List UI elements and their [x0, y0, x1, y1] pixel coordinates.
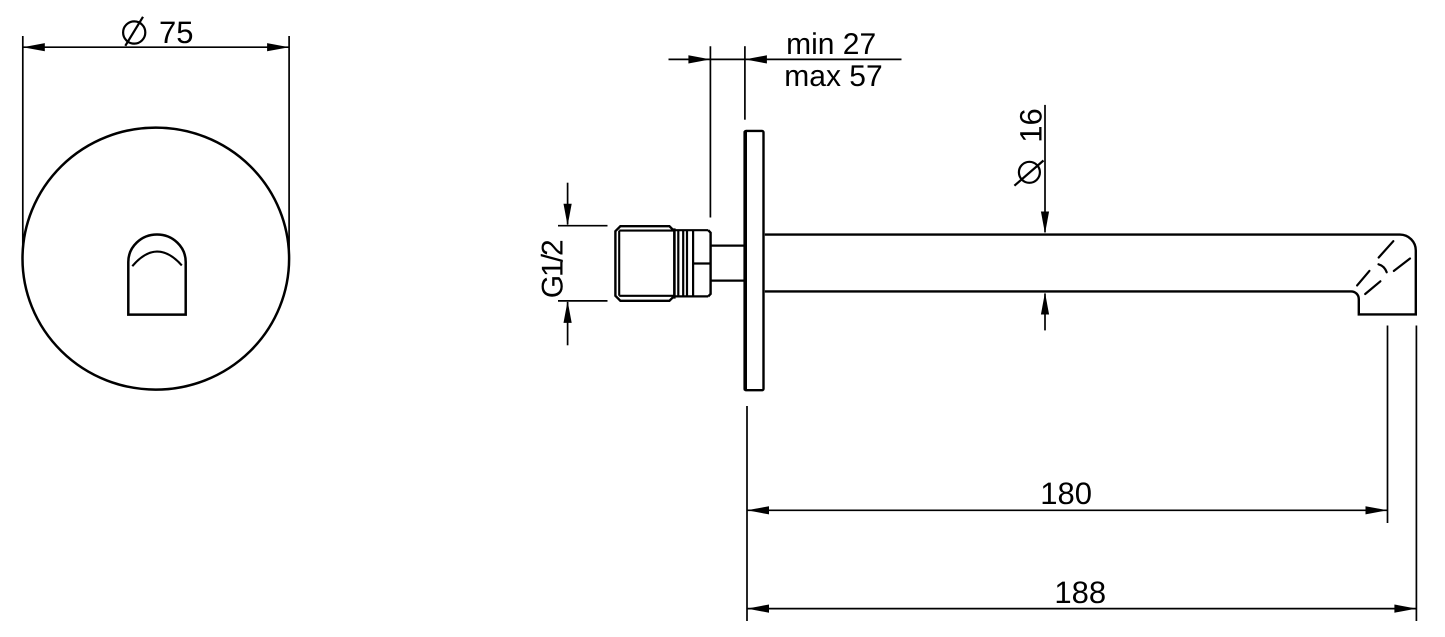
bottom extension line spout end (188) — [1415, 326, 1417, 622]
threaded connector body G1/2 (side view) — [615, 226, 674, 301]
hidden waterway dashed lines in bend — [1357, 241, 1410, 294]
diameter symbol of Ø75 — [123, 17, 145, 46]
arrowhead Ø75 left — [23, 43, 45, 51]
svg-text:75: 75 — [159, 15, 193, 50]
svg-text:G1/2: G1/2 — [536, 240, 569, 298]
G1/2 dimension line bottom with arrow — [567, 302, 569, 345]
G1/2 extension line top — [558, 225, 608, 227]
wall plate (side view flange) — [745, 131, 764, 390]
Ø16 dimension line upper with arrow — [1044, 105, 1046, 232]
spout tube outline — [765, 235, 1416, 315]
svg-text:min 27: min 27 — [786, 28, 876, 61]
wall plate thick left edge — [744, 131, 747, 390]
dimension line 188 — [747, 608, 1416, 610]
bottom extension line left (wall face) — [746, 406, 748, 621]
arrowhead pointing left at right extension — [745, 55, 767, 63]
min/max dimension line — [669, 58, 902, 60]
nut chamfers and right face — [708, 230, 710, 296]
extension line left of Ø75 — [22, 36, 24, 250]
spout inner lip arc (front view) — [132, 252, 182, 267]
extension line right of Ø75 — [288, 36, 290, 250]
diameter symbol of Ø16 — [1014, 161, 1043, 186]
G1/2 extension line bottom — [558, 300, 608, 302]
svg-text:max 57: max 57 — [784, 60, 882, 93]
G1/2 dimension line top with arrow — [567, 183, 569, 225]
svg-text:180: 180 — [1040, 476, 1092, 511]
arrowhead 188 left — [747, 605, 769, 613]
dimension line 180 — [747, 509, 1388, 511]
arrowhead 180 left — [747, 506, 769, 514]
connector right face — [673, 228, 675, 298]
arrowhead pointing right at left extension — [688, 55, 710, 63]
min/max extension line left — [709, 46, 711, 217]
escutcheon circle (front view, Ø75 wall plate) — [23, 128, 290, 390]
svg-text:16: 16 — [1013, 108, 1048, 142]
Ø16 dimension line lower with arrow — [1044, 294, 1046, 331]
locking rings / nut stack — [674, 230, 708, 296]
dimension line Ø75 — [23, 46, 289, 48]
connector inner chamfer lines — [619, 231, 674, 296]
arrowhead Ø75 right — [267, 43, 289, 51]
nut split line — [693, 262, 711, 264]
arrowhead 188 right — [1394, 605, 1416, 613]
svg-text:188: 188 — [1054, 575, 1106, 610]
spout opening arch (front view) — [128, 235, 185, 315]
connecting cylinder to wall plate — [711, 245, 745, 247]
arrowhead 180 right — [1366, 506, 1388, 514]
bottom extension line outlet centre (180) — [1387, 326, 1389, 524]
min/max extension line right — [744, 46, 746, 120]
